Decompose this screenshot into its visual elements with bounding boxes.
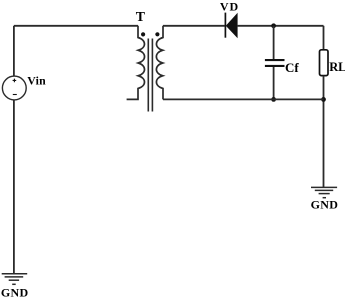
node junction dot bottom of Cf [271, 97, 276, 102]
diode VD triangle [226, 13, 238, 39]
svg-text:VD: VD [220, 0, 239, 13]
transformer T secondary winding [156, 26, 163, 100]
wire RL bottom down to ground right [323, 76, 325, 188]
svg-text:GND: GND [1, 285, 29, 297]
svg-text:T: T [136, 9, 145, 24]
svg-text:Vin: Vin [27, 74, 46, 88]
voltage source Vin [2, 76, 26, 100]
node junction dot top of Cf [271, 23, 276, 28]
transformer core [148, 39, 152, 112]
wire diode to top-right corner [238, 25, 324, 27]
wire top-left from Vin to transformer primary [14, 25, 138, 27]
resistor RL [320, 50, 329, 76]
wire secondary top to diode anode side [163, 25, 225, 27]
ground symbol right [311, 187, 337, 197]
diode VD cathode bar [224, 13, 226, 38]
svg-text:Cf: Cf [285, 60, 299, 75]
capacitor Cf bottom plate [265, 65, 285, 67]
node junction dot bottom rail at RL [321, 97, 326, 102]
plus sign of Vin [13, 79, 17, 83]
wire left vertical from top rail down to Vin plus [13, 26, 15, 77]
svg-text:RL: RL [329, 60, 345, 74]
wire top-right corner down to RL [323, 26, 325, 50]
transformer polarity dot secondary [155, 32, 159, 36]
capacitor Cf top plate [265, 59, 285, 61]
wire Cf bottom lead [273, 67, 275, 99]
transformer polarity dot primary [141, 32, 145, 36]
transformer T primary winding [127, 26, 145, 100]
wire Cf top lead [273, 26, 275, 59]
wire bottom rail from secondary winding to RL branch [163, 98, 324, 100]
ground symbol left [2, 274, 28, 285]
svg-text:GND: GND [311, 197, 339, 211]
minus sign of Vin [13, 94, 17, 96]
wire from Vin minus down to left ground [13, 100, 15, 274]
